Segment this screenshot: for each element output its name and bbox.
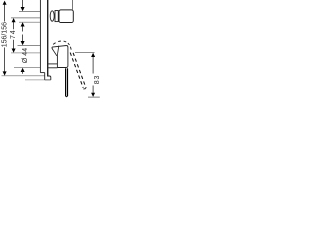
dimension 74 arrow down: [12, 49, 16, 53]
extension line 74 bottom: [11, 52, 40, 54]
extension line grip end: [71, 0, 73, 10]
escutcheon plate front face: [39, 0, 41, 73]
lever underside stroke: [52, 49, 57, 56]
extension line 83 bottom: [88, 96, 100, 98]
body step line: [48, 63, 58, 65]
lever stem vertical: [56, 56, 58, 68]
dashed lever left line: [70, 53, 83, 88]
extension line plate bottom: [2, 75, 45, 77]
handle collar rect: [55, 11, 58, 22]
extension line lower wall reference: [25, 79, 45, 81]
dimension 74 line: [13, 21, 15, 49]
handle grip rounded rect: [59, 10, 73, 23]
sleeve bottom line: [48, 67, 58, 69]
extension line top of escutcheon sleeve: [18, 44, 41, 46]
dimension 83 arrow down: [91, 93, 95, 97]
grip down-position left edge: [65, 68, 67, 96]
tab bottom edge: [45, 79, 51, 81]
dimension 156/156 arrow up: [3, 1, 7, 5]
dimension capsule-height outside arrows line: [22, 0, 24, 41]
handle capsule (cone base side view): [50, 11, 54, 21]
plate bottom step horizontal: [40, 72, 44, 74]
extension line top of handle capsule: [19, 10, 40, 12]
swing arc dashed: [53, 41, 71, 50]
svg-text:83: 83: [94, 75, 100, 84]
extension line 83 top: [75, 52, 95, 54]
lever top edge (open position view): [52, 46, 66, 50]
dimension 44 arrow up: [21, 68, 25, 72]
extension line bottom of handle capsule: [19, 21, 40, 23]
plate bottom step vertical: [44, 73, 46, 80]
extension line bottom of sleeve: [14, 67, 40, 69]
dashed lever tip: [83, 88, 86, 90]
extension line handle centerline: [11, 17, 40, 19]
dimension 83 arrow up: [91, 53, 95, 57]
lever cone stroke: [57, 46, 59, 56]
dimension 44 tail below: [22, 71, 24, 73]
svg-text:Ø 44: Ø 44: [22, 48, 29, 63]
dimension 156/156 line: [4, 3, 6, 72]
dimension 156/156 arrow down: [3, 71, 7, 75]
dimension capsule arrow down at top line: [21, 7, 25, 11]
lever right edge: [57, 46, 68, 68]
body bottom corner: [47, 76, 51, 80]
grip tip: [66, 95, 68, 98]
dimension capsule arrow up at bottom line: [21, 22, 25, 26]
dashed lever right line: [73, 53, 86, 88]
wall face line: [47, 0, 49, 76]
dimension 44 arrow down: [21, 41, 25, 45]
dimension 74 arrow up: [12, 18, 16, 22]
grip down-position right edge: [67, 68, 69, 96]
dimension 83 line: [92, 56, 94, 93]
svg-text:156/156: 156/156: [1, 22, 8, 47]
svg-text:74: 74: [10, 30, 17, 39]
